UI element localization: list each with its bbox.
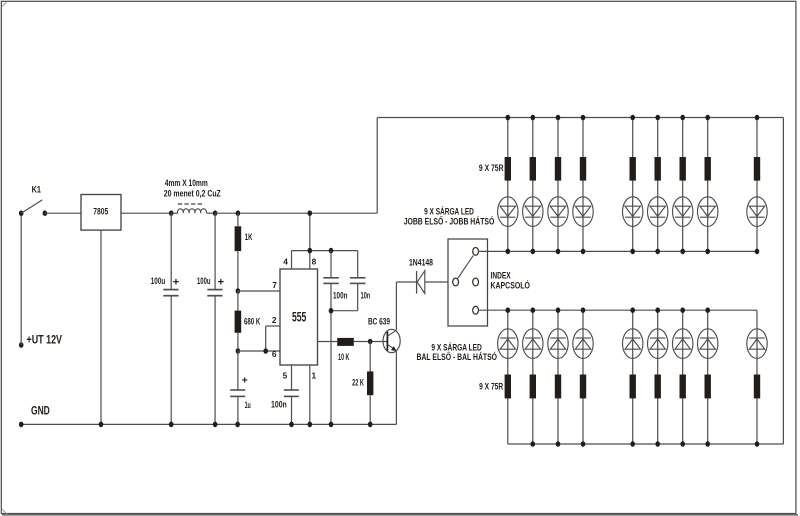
svg-text:555: 555	[292, 310, 306, 326]
ground junction dot 7805	[99, 422, 104, 428]
wire right-bank column 6	[657, 118, 659, 252]
ground rail	[21, 423, 396, 425]
wire 7805 ground lead	[100, 230, 102, 424]
junction dot C1	[169, 210, 174, 216]
LED D8 (right bank)	[673, 197, 693, 227]
svg-text:22 K: 22 K	[352, 377, 364, 387]
svg-text:BC 639: BC 639	[368, 317, 390, 327]
junction dot bottom bus col 4	[581, 441, 586, 447]
wire pin 8 to rail	[309, 213, 311, 269]
svg-text:+: +	[173, 276, 179, 288]
LED D4 (right bank)	[548, 197, 568, 227]
svg-text:BAL ELSŐ - BAL HÁTSÓ: BAL ELSŐ - BAL HÁTSÓ	[417, 351, 498, 362]
junction dot return bus col 7	[680, 249, 685, 255]
junction dot C3 top	[329, 248, 334, 254]
resistor 75R right bank 1	[505, 157, 511, 181]
svg-text:KAPCSOLÓ: KAPCSOLÓ	[491, 279, 531, 290]
junction dot pin8	[308, 248, 313, 254]
svg-text:1: 1	[312, 371, 317, 381]
wire pin 1	[309, 365, 311, 424]
wire left-bank column 6	[657, 310, 659, 444]
resistor 75R right bank 9	[754, 157, 760, 181]
svg-text:JOBB ELSŐ - JOBB HÁTSÓ: JOBB ELSŐ - JOBB HÁTSÓ	[404, 216, 495, 227]
wire K1 to 7805 input	[45, 212, 81, 214]
transistor Q1 BC639	[383, 329, 400, 352]
wire left-bank column 7	[682, 310, 684, 444]
junction dot top bus col 3	[556, 115, 561, 121]
capacitor C6 100n	[284, 390, 299, 424]
svg-text:100n: 100n	[271, 400, 287, 410]
terminal +UT 12V	[19, 342, 24, 348]
junction dot top bus col 1	[506, 115, 511, 121]
svg-text:4mm X 10mm: 4mm X 10mm	[165, 178, 208, 188]
svg-text:10 K: 10 K	[338, 352, 350, 362]
wire left-bank column 1	[507, 310, 509, 444]
junction dot C2	[213, 210, 218, 216]
junction dot feed bus col 8	[705, 307, 710, 313]
LED D3 (right bank)	[523, 197, 543, 227]
wire right-bank column 4	[582, 118, 584, 252]
resistor 75R left bank 2	[530, 375, 536, 399]
junction dot return bus col 3	[556, 249, 561, 255]
junction dot pin6	[236, 348, 241, 354]
LED D19 (left bank)	[747, 329, 767, 359]
capacitor C4 10n	[331, 251, 366, 311]
wire right-bank column 8	[707, 118, 709, 252]
resistor R3 10K	[337, 338, 354, 346]
inductor L1	[171, 204, 215, 213]
wire main rail to riser	[215, 212, 377, 214]
wire collector riser	[395, 282, 397, 330]
wire riser to LED top bus	[376, 118, 378, 214]
junction dot top bus col 4	[581, 115, 586, 121]
LED D18 (left bank)	[698, 329, 718, 359]
junction dot feed bus col 5	[630, 307, 635, 313]
junction dot return bus col 4	[581, 249, 586, 255]
junction dot bottom bus col 5	[630, 441, 635, 447]
resistor 75R right bank 4	[580, 157, 586, 181]
LED D17 (left bank)	[673, 329, 693, 359]
capacitor C1 100u	[163, 213, 178, 424]
svg-text:K1: K1	[32, 184, 41, 194]
wire left-bank column 9	[756, 310, 758, 444]
resistor 75R right bank 6	[655, 157, 661, 181]
resistor 75R right bank 2	[530, 157, 536, 181]
junction dot top bus col 8	[705, 115, 710, 121]
junction dot return bus col 8	[705, 249, 710, 255]
wire emitter drop	[395, 350, 397, 424]
svg-text:20 menet 0,2 CuZ: 20 menet 0,2 CuZ	[164, 189, 221, 199]
junction dot bottom bus col 6	[655, 441, 660, 447]
switch top contact	[473, 248, 479, 256]
switch K1	[19, 200, 47, 216]
resistor 75R left bank 8	[705, 375, 711, 399]
svg-text:9 X 75R: 9 X 75R	[479, 163, 504, 173]
diode D1 1N4148	[417, 271, 425, 294]
junction dot bottom bus col 2	[531, 441, 536, 447]
svg-text:5: 5	[283, 371, 288, 381]
resistor R1 1K	[235, 213, 242, 291]
wire pin 3	[318, 341, 338, 343]
svg-text:9 X 75R: 9 X 75R	[479, 382, 504, 392]
junction dot top bus col 5	[630, 115, 635, 121]
LED D9 (right bank)	[698, 197, 718, 227]
wire top bank return bus	[479, 250, 757, 252]
ground junction dot input	[19, 422, 24, 428]
svg-text:7805: 7805	[93, 206, 108, 216]
junction dot feed bus col 4	[581, 307, 586, 313]
wire pin 4	[291, 251, 293, 269]
junction dot bottom bus col 7	[680, 441, 685, 447]
LED D5 (right bank)	[573, 197, 593, 227]
svg-text:2: 2	[272, 315, 277, 325]
wire bottom bank bottom bus	[508, 443, 784, 445]
wire right-bank column 3	[557, 118, 559, 252]
junction dot return bus col 9	[755, 249, 760, 255]
resistor 75R right bank 5	[630, 157, 636, 181]
capacitor C3 100n	[323, 251, 339, 425]
svg-text:1u: 1u	[245, 400, 251, 410]
junction dot bottom bus col 8	[705, 441, 710, 447]
LED D12 (left bank)	[523, 329, 543, 359]
switch INDEX KAPCSOLO box	[448, 239, 488, 326]
junction dot bottom bus col 9	[755, 441, 760, 447]
svg-text:680 K: 680 K	[244, 317, 261, 327]
junction dot top bus col 2	[531, 115, 536, 121]
LED D6 (right bank)	[623, 197, 643, 227]
junction dot feed bus col 1	[506, 307, 511, 313]
svg-text:100u: 100u	[151, 276, 165, 286]
wire pin 2 vertical link	[266, 326, 280, 351]
switch middle contact	[473, 278, 479, 286]
LED D11 (left bank)	[498, 329, 518, 359]
LED D16 (left bank)	[648, 329, 668, 359]
LED D2 (right bank)	[498, 197, 518, 227]
svg-text:6: 6	[272, 349, 277, 359]
svg-text:+UT 12V: +UT 12V	[27, 334, 63, 346]
wire pin3 to base	[354, 341, 388, 343]
junction dot R1 top	[236, 210, 241, 216]
resistor 75R left bank 5	[630, 375, 636, 399]
ground junction dot C1	[169, 422, 174, 428]
wire diode to switch	[425, 281, 453, 283]
wire right-bank column 1	[507, 118, 509, 252]
ground junction dot C5	[235, 422, 240, 428]
regulator 7805	[81, 195, 121, 231]
resistor R4 22K	[367, 342, 373, 425]
wire pin 7	[238, 290, 280, 292]
resistor 75R right bank 7	[680, 157, 686, 181]
resistor 75R left bank 6	[655, 375, 661, 399]
svg-text:1K: 1K	[245, 232, 253, 242]
wire right-bank column 2	[532, 118, 534, 252]
resistor 75R left bank 4	[580, 375, 586, 399]
junction dot base/22K	[368, 339, 373, 345]
resistor 75R right bank 3	[555, 157, 561, 181]
wire pins 4-8 to caps	[292, 250, 358, 252]
junction dot feed bus col 2	[531, 307, 536, 313]
svg-text:1N4148: 1N4148	[409, 258, 433, 268]
LED D14 (left bank)	[573, 329, 593, 359]
wire left-bank column 2	[532, 310, 534, 444]
LED bank top bus	[377, 117, 783, 119]
svg-text:+: +	[218, 276, 224, 288]
svg-text:+: +	[242, 374, 248, 386]
LED D15 (left bank)	[623, 329, 643, 359]
svg-text:7: 7	[272, 280, 277, 290]
svg-text:100u: 100u	[197, 276, 211, 286]
svg-text:4: 4	[283, 257, 288, 267]
ground junction dot R4	[368, 422, 373, 428]
wire right-bank column 5	[632, 118, 634, 252]
wire left-bank column 8	[707, 310, 709, 444]
junction dot feed bus col 6	[655, 307, 660, 313]
junction dot return bus col 6	[655, 249, 660, 255]
wire right edge feed	[782, 118, 784, 445]
wire left-bank column 5	[632, 310, 634, 444]
wire pin 5	[291, 365, 293, 390]
wire +12V input riser	[20, 213, 22, 345]
resistor R2 680K	[235, 291, 242, 351]
IC 555	[280, 269, 318, 365]
wire left-bank column 3	[557, 310, 559, 444]
junction dot top bus col 6	[655, 115, 660, 121]
junction dot pin7	[236, 288, 241, 294]
svg-text:100n: 100n	[333, 291, 348, 301]
junction dot return bus col 5	[630, 249, 635, 255]
svg-text:GND: GND	[31, 406, 50, 418]
resistor 75R left bank 3	[555, 375, 561, 399]
junction dot pin8 rail	[308, 210, 313, 216]
switch common contact	[453, 278, 459, 286]
wire bottom bank feed bus	[479, 309, 757, 311]
resistor 75R right bank 8	[705, 157, 711, 181]
svg-text:10n: 10n	[361, 291, 371, 301]
ground junction dot C2	[213, 422, 218, 428]
wire pin 6	[238, 350, 280, 352]
capacitor C2 100u	[207, 213, 222, 424]
ground junction dot pin1	[308, 422, 313, 428]
junction dot top bus col 7	[680, 115, 685, 121]
svg-text:9 X SÁRGA LED: 9 X SÁRGA LED	[424, 207, 474, 217]
svg-text:INDEX: INDEX	[491, 270, 511, 280]
junction dot pin2 link	[263, 348, 268, 354]
ground junction dot C3	[329, 422, 334, 428]
junction dot feed bus col 7	[680, 307, 685, 313]
svg-text:8: 8	[312, 257, 317, 267]
wire right-bank column 7	[682, 118, 684, 252]
junction dot return bus col 1	[506, 249, 511, 255]
junction dot bottom bus col 3	[556, 441, 561, 447]
junction dot feed bus col 3	[556, 307, 561, 313]
switch lever	[458, 256, 474, 279]
svg-text:9 X SÁRGA LED: 9 X SÁRGA LED	[431, 342, 481, 352]
wire right-bank column 9	[756, 118, 758, 252]
junction dot return bus col 2	[531, 249, 536, 255]
capacitor C5 1u	[230, 351, 245, 424]
ground junction dot C6	[289, 422, 294, 428]
resistor 75R left bank 9	[754, 375, 760, 399]
switch bottom contact	[473, 306, 479, 314]
resistor 75R left bank 1	[505, 375, 511, 399]
LED D10 (right bank)	[747, 197, 767, 227]
resistor 75R left bank 7	[680, 375, 686, 399]
LED D7 (right bank)	[648, 197, 668, 227]
wire left-bank column 4	[582, 310, 584, 444]
LED D13 (left bank)	[548, 329, 568, 359]
junction dot top bus col 9	[755, 115, 760, 121]
wire 7805 output	[121, 212, 171, 214]
junction dot C3/C4 bottom	[329, 308, 334, 314]
